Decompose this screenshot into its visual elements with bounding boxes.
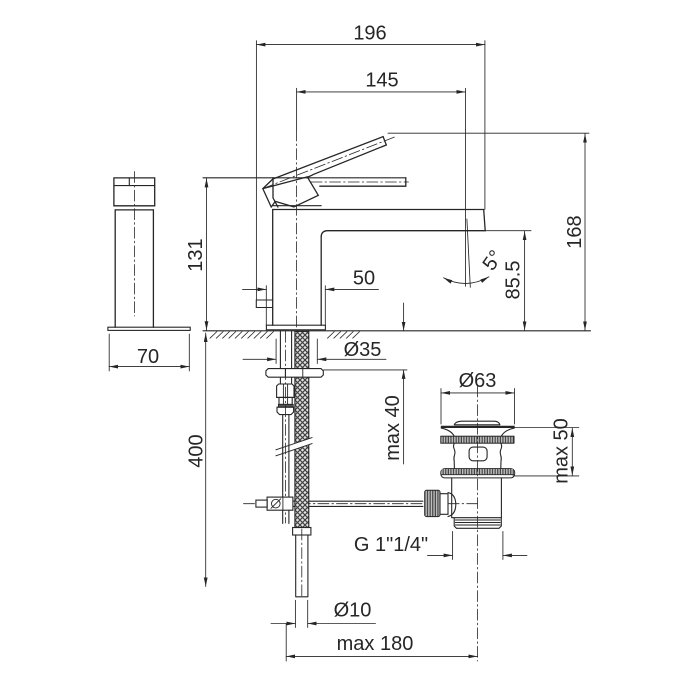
svg-text:max 40: max 40 [382, 395, 404, 461]
svg-text:196: 196 [353, 23, 386, 45]
dim 50 line right segment [325, 288, 378, 290]
dim 168 line [584, 134, 586, 331]
drain flange trumpet sides [441, 428, 514, 436]
drain lower body [452, 478, 502, 518]
dim 145 extension line right [465, 88, 467, 286]
body top / spout top edge [273, 209, 484, 211]
front view closed handle rear edge [273, 178, 278, 207]
dim diam10 extension lines [295, 600, 307, 627]
spout underside [321, 231, 485, 237]
dim 50 line left segment [243, 288, 267, 290]
counter hatching left of faucet [210, 332, 274, 339]
aerator 5 degree tilted line [467, 219, 470, 287]
clevis screw slot [271, 499, 281, 509]
dim max40 lower segment [403, 370, 405, 464]
side view body [115, 210, 153, 327]
drain centerline [477, 386, 479, 661]
5 degree swing arc [444, 277, 490, 284]
body right edge [320, 237, 322, 325]
dim diam10 line left segment [271, 623, 295, 625]
dim max180 line [286, 655, 477, 657]
svg-text:50: 50 [353, 268, 375, 290]
svg-text:400: 400 [186, 434, 208, 467]
dim 145 extension line left / body centerline [296, 88, 298, 130]
dim G1-1/4 line left segment [428, 554, 453, 556]
front view closed lever bar [320, 178, 406, 186]
dim diam63 line [441, 392, 515, 394]
hex nut facet lines [283, 384, 287, 397]
drain threaded tail [454, 518, 501, 529]
rod left tip [256, 500, 267, 507]
dim 70 extension lines [109, 334, 189, 371]
pop-up rod side tab [256, 300, 272, 308]
side view handle parting line [114, 185, 155, 187]
counter hatching right of faucet [328, 332, 360, 339]
base plate front view [266, 325, 325, 330]
hose end tube [296, 535, 308, 597]
dim diam35 line left segment [243, 358, 276, 360]
dim max180 left extension line [285, 624, 287, 661]
dim max50 extension lines [512, 428, 579, 476]
dim G1-1/4 line right segment [503, 554, 527, 556]
shank tube [280, 331, 291, 384]
dim 168 top extension line [388, 132, 589, 134]
drain knurled ring 2 texture [442, 469, 514, 475]
raised lever band lower edge [307, 145, 387, 177]
braid break lines [276, 438, 312, 456]
dim 145 line [297, 91, 466, 93]
side view base plate [108, 327, 190, 330]
dim 70 line [109, 366, 189, 368]
dim 196 extension line right [484, 41, 486, 210]
svg-text:Ø35: Ø35 [344, 339, 382, 361]
front view closed handle top edge + 131 extension line [203, 177, 406, 179]
counter line [203, 330, 591, 332]
svg-text:85.5: 85.5 [503, 261, 525, 300]
dim 85.5 top extension line [485, 230, 531, 232]
braided supply hose [295, 331, 309, 527]
drain side port knurled cap [425, 490, 440, 516]
drain body middle section sides [454, 443, 502, 468]
rod clevis block [267, 497, 293, 510]
svg-text:Ø63: Ø63 [459, 370, 497, 392]
drain side port boss [448, 493, 456, 517]
mounting flange under counter [266, 369, 323, 378]
lower coupling nut [277, 407, 294, 414]
cartridge ring line [273, 205, 322, 207]
shank centerline [285, 331, 287, 523]
hose coupling hex nut [277, 384, 294, 397]
dim diam10 line right segment [308, 623, 376, 625]
svg-text:168: 168 [564, 215, 586, 248]
svg-text:G 1"1/4": G 1"1/4" [354, 534, 428, 556]
dim max40 upper segment [403, 303, 405, 331]
flange tick marks [285, 369, 303, 378]
drain lever square hole [469, 447, 487, 461]
horizontal rod centerline [244, 503, 478, 505]
pop-up vertical rod [283, 415, 289, 524]
drain knurled ring 2 [441, 469, 515, 478]
braid break mark [276, 438, 312, 456]
clevis screw [272, 499, 281, 508]
drain knurled ring 2 parting line [441, 474, 515, 476]
hose tube centerline [301, 529, 303, 596]
svg-text:70: 70 [137, 346, 159, 368]
dim diam63 extension lines [441, 389, 515, 425]
svg-text:145: 145 [365, 70, 398, 92]
raised lever band upper edge [273, 137, 383, 179]
dim max50 line [571, 428, 573, 475]
clevis divider [282, 497, 284, 510]
dim 400 line [205, 333, 207, 587]
dim 131 line [206, 178, 208, 330]
side view handle block [114, 178, 155, 206]
drain flange top [441, 426, 515, 428]
drain tail threads [455, 520, 500, 525]
spout right face [484, 210, 486, 231]
side view handle slot tick [128, 178, 130, 186]
dim diam35 extension lines [276, 339, 317, 364]
side view neck ring [114, 206, 155, 210]
svg-text:131: 131 [185, 238, 207, 271]
hose coupling collar [279, 397, 292, 404]
drain plug cap dome [454, 421, 500, 425]
dim diam35 line right segment [317, 358, 386, 360]
drain side port collar [440, 494, 448, 515]
svg-text:max 50: max 50 [551, 418, 573, 484]
dim 196 line [256, 44, 485, 46]
hose ferrule [293, 528, 311, 536]
raised lever tip [383, 137, 386, 145]
dim max40 flange extension line [324, 369, 408, 371]
svg-text:max 180: max 180 [337, 633, 414, 655]
compression ring [278, 404, 293, 407]
collar facet lines [283, 397, 287, 404]
dim G1-1/4 extension lines [453, 531, 503, 559]
svg-text:Ø10: Ø10 [334, 600, 372, 622]
horizontal pop-up rod [293, 501, 423, 506]
dim 85.5 line [524, 231, 526, 330]
raised lever centerline [263, 137, 395, 189]
closed lever bar centerline [311, 181, 409, 183]
dim 196 extension line left [255, 41, 257, 300]
body left edge [272, 210, 274, 326]
dim 50 extension lines [266, 286, 325, 326]
handle base pentagon [263, 177, 319, 207]
drain knurled ring 1 [441, 436, 514, 443]
side view centerline [133, 172, 135, 317]
